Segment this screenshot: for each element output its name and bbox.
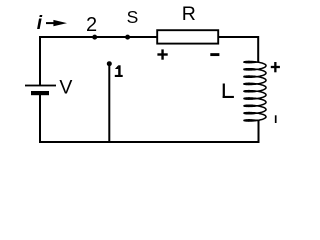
battery V plates (25, 85, 56, 96)
wire top-left segment (40, 36, 157, 38)
node 1 dot (107, 61, 112, 66)
svg-text:R: R (182, 3, 196, 25)
wire left battery bottom lead (39, 95, 41, 142)
wire bottom (40, 141, 259, 143)
svg-text:i: i (37, 13, 43, 34)
wire top-right segment (219, 37, 259, 62)
current arrow (46, 20, 67, 26)
inductor L coil (244, 61, 266, 121)
wire switch position 1 drop (108, 64, 110, 142)
svg-text:2: 2 (86, 14, 97, 36)
svg-text:V: V (59, 77, 72, 99)
switch S node dot (125, 35, 130, 40)
resistor R box (157, 30, 218, 43)
inductor polarity plus (271, 62, 280, 72)
resistor polarity plus (157, 49, 167, 59)
wire left battery top lead (39, 37, 41, 85)
inductor label L (223, 84, 234, 99)
svg-text:S: S (127, 7, 139, 27)
node 1 label (115, 65, 123, 77)
wire inductor bottom lead (258, 121, 260, 143)
resistor polarity minus (210, 53, 219, 56)
node 2 dot (92, 35, 97, 40)
inductor polarity minus vertical (275, 115, 277, 123)
